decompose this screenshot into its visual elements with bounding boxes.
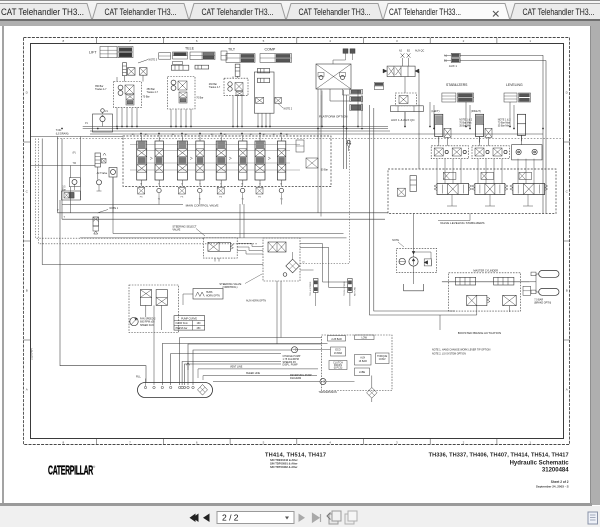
svg-text:B: B xyxy=(26,289,28,293)
svg-text:NOTE 2, LSI SYSTEM OPTION: NOTE 2, LSI SYSTEM OPTION xyxy=(432,352,466,355)
svg-text:31200484: 31200484 xyxy=(542,467,569,473)
svg-text:TH336, TH337, TH406, TH407, TH: TH336, TH337, TH406, TH407, TH414, TH514… xyxy=(429,453,569,459)
svg-text:TM: TM xyxy=(73,162,76,165)
svg-text:Trades 4-7: Trades 4-7 xyxy=(209,86,221,89)
svg-text:(RIGHT): (RIGHT) xyxy=(471,109,481,113)
svg-text:LEVELING: LEVELING xyxy=(506,83,523,87)
svg-text:T: T xyxy=(280,183,282,186)
svg-text:PS: PS xyxy=(258,197,261,199)
svg-text:P: P xyxy=(57,209,59,212)
svg-text:C: C xyxy=(26,190,29,194)
svg-text:P1: P1 xyxy=(85,122,89,125)
svg-text:FILL: FILL xyxy=(136,376,141,379)
svg-text:T1: T1 xyxy=(158,199,161,201)
svg-text:LOW: LOW xyxy=(361,337,367,340)
svg-text:MAIN CONTROL VALVE: MAIN CONTROL VALVE xyxy=(186,203,219,207)
svg-text:(LS DRAIN): (LS DRAIN) xyxy=(56,132,69,135)
svg-text:160: 160 xyxy=(197,323,202,325)
svg-text:CAT Telehandler TH3...: CAT Telehandler TH3... xyxy=(299,7,371,17)
svg-text:September 24, 2003 - S: September 24, 2003 - S xyxy=(536,484,569,488)
svg-text:TRANSMISSION: TRANSMISSION xyxy=(319,391,337,394)
svg-text:LIFT: LIFT xyxy=(89,51,97,55)
svg-text:70 Bar: 70 Bar xyxy=(196,97,203,100)
svg-text:VALVE: VALVE xyxy=(172,228,180,232)
svg-text:Trades 4-7: Trades 4-7 xyxy=(147,91,159,94)
svg-text:NOTE 1, HAND CHANGE WORK LEVER: NOTE 1, HAND CHANGE WORK LEVER TIP OPTIO… xyxy=(432,349,491,352)
svg-text:CAT Telehandler TH3...: CAT Telehandler TH3... xyxy=(105,7,177,17)
svg-text:B1: B1 xyxy=(273,134,276,136)
svg-text:FLOW l/min: FLOW l/min xyxy=(176,323,189,325)
svg-text:(BRAKE OPTN): (BRAKE OPTN) xyxy=(534,302,551,305)
svg-text:31200484: 31200484 xyxy=(30,348,34,360)
svg-text:(ORBITROL): (ORBITROL) xyxy=(223,285,238,289)
svg-text:7: 7 xyxy=(129,39,131,43)
svg-text:3: 3 xyxy=(396,441,398,445)
svg-text:16 BAR: 16 BAR xyxy=(359,360,368,363)
svg-text:S/N TDE00442 & After: S/N TDE00442 & After xyxy=(270,458,298,462)
svg-text:5: 5 xyxy=(263,39,265,43)
svg-text:T: T xyxy=(140,183,142,186)
svg-text:T1: T1 xyxy=(280,199,283,201)
svg-text:DIAGRAM: DIAGRAM xyxy=(290,377,301,380)
svg-text:6: 6 xyxy=(196,39,198,43)
svg-text:HORN OPTN: HORN OPTN xyxy=(206,295,220,297)
svg-text:1: 1 xyxy=(529,39,531,43)
svg-text:T: T xyxy=(259,183,261,186)
svg-text:DISPL. PUMP: DISPL. PUMP xyxy=(283,364,299,367)
svg-text:D: D xyxy=(566,91,569,95)
svg-text:AUX 1: AUX 1 xyxy=(449,64,458,68)
svg-text:A: A xyxy=(566,388,568,392)
svg-text:T1: T1 xyxy=(199,199,202,201)
svg-text:CAT Telehandler TH3...: CAT Telehandler TH3... xyxy=(1,7,84,17)
svg-text:35 Bar Min: 35 Bar Min xyxy=(498,125,510,128)
svg-text:250: 250 xyxy=(197,328,202,330)
svg-text:7: 7 xyxy=(129,441,131,445)
svg-text:A1: A1 xyxy=(444,55,448,58)
svg-text:S/N TDT00432 & After: S/N TDT00432 & After xyxy=(270,465,298,469)
svg-text:2: 2 xyxy=(463,39,465,43)
svg-text:LUBE: LUBE xyxy=(359,371,366,374)
svg-text:HUBS: HUBS xyxy=(206,292,213,294)
svg-text:TILT: TILT xyxy=(228,48,236,52)
svg-text:2: 2 xyxy=(463,441,465,445)
svg-text:8: 8 xyxy=(62,441,64,445)
svg-text:T: T xyxy=(220,183,222,186)
svg-text:AUX HORN OPTN: AUX HORN OPTN xyxy=(246,300,266,303)
svg-text:T: T xyxy=(158,183,160,186)
svg-text:TH414, TH514, TH417: TH414, TH514, TH417 xyxy=(265,453,326,459)
svg-text:ALT Valve: ALT Valve xyxy=(97,172,108,175)
svg-text:TO RH STEER: TO RH STEER xyxy=(344,281,346,296)
svg-text:AUX QC: AUX QC xyxy=(415,50,424,53)
svg-text:2-25 BAR: 2-25 BAR xyxy=(331,338,342,341)
svg-text:6: 6 xyxy=(196,441,198,445)
svg-text:CAT Telehandler TH33...: CAT Telehandler TH33... xyxy=(389,7,461,17)
svg-text:4: 4 xyxy=(329,39,331,43)
svg-text:70 Bar: 70 Bar xyxy=(143,96,150,99)
svg-text:A2: A2 xyxy=(399,50,403,53)
svg-text:PS: PS xyxy=(140,197,143,199)
svg-text:C: C xyxy=(566,190,569,194)
svg-text:Trades 4-7: Trades 4-7 xyxy=(95,88,107,91)
svg-text:PUMP CURVE: PUMP CURVE xyxy=(181,317,197,320)
svg-text:TELE: TELE xyxy=(185,46,195,50)
svg-text:T1: T1 xyxy=(241,199,244,201)
svg-text:MASTER CYLINDER: MASTER CYLINDER xyxy=(473,269,498,273)
svg-text:BLEED LINE: BLEED LINE xyxy=(246,372,260,375)
svg-text:50 Bar: 50 Bar xyxy=(321,169,328,172)
svg-text:(5 PCS): (5 PCS) xyxy=(334,366,343,369)
svg-text:COMP: COMP xyxy=(265,48,276,52)
svg-text:8: 8 xyxy=(62,39,64,43)
svg-text:CAT Telehandler TH3...: CAT Telehandler TH3... xyxy=(523,7,595,17)
svg-text:BOOSTED BRAKE ACTUATION: BOOSTED BRAKE ACTUATION xyxy=(458,331,501,335)
svg-text:4: 4 xyxy=(329,441,331,445)
svg-text:CAT Telehandler TH3...: CAT Telehandler TH3... xyxy=(202,7,274,17)
svg-text:Sheet 2 of 2: Sheet 2 of 2 xyxy=(551,480,569,484)
svg-text:VALVE LEVELING STABILIZERS: VALVE LEVELING STABILIZERS xyxy=(440,221,485,225)
svg-text:D: D xyxy=(26,91,29,95)
svg-text:PS: PS xyxy=(219,197,222,199)
svg-text:A1: A1 xyxy=(286,133,289,136)
svg-text:PLATFORM OPTION: PLATFORM OPTION xyxy=(319,115,347,119)
svg-text:PRESS bar: PRESS bar xyxy=(176,327,188,330)
svg-text:3: 3 xyxy=(396,39,398,43)
svg-text:B2: B2 xyxy=(407,50,411,53)
svg-text:NOTE: NOTE xyxy=(392,239,399,242)
svg-text:RETURN: RETURN xyxy=(355,286,357,296)
svg-text:B1: B1 xyxy=(444,60,448,63)
svg-text:T: T xyxy=(64,216,66,219)
svg-text:CATERPILLAR: CATERPILLAR xyxy=(48,463,94,478)
svg-text:T: T xyxy=(181,183,183,186)
svg-text:NOTE 1: NOTE 1 xyxy=(110,207,119,210)
svg-text:Hydraulic Schematic: Hydraulic Schematic xyxy=(510,460,570,466)
svg-text:A: A xyxy=(26,388,28,392)
svg-text:5: 5 xyxy=(263,441,265,445)
svg-text:T: T xyxy=(199,183,201,186)
svg-text:2 / 2: 2 / 2 xyxy=(222,512,239,522)
svg-text:1: 1 xyxy=(529,441,531,445)
svg-text:PS: PS xyxy=(181,197,184,199)
svg-text:AUX 1 & AUX QC: AUX 1 & AUX QC xyxy=(391,118,416,122)
svg-text:LS: LS xyxy=(302,262,305,264)
svg-text:A2: A2 xyxy=(263,133,266,136)
svg-text:B3: B3 xyxy=(211,134,214,136)
svg-text:LS: LS xyxy=(105,110,108,113)
svg-text:(P): (P) xyxy=(73,152,76,155)
svg-text:S/N TDF00501 & After: S/N TDF00501 & After xyxy=(270,462,298,466)
svg-text:(LEFT): (LEFT) xyxy=(431,109,439,113)
svg-text:SPEED FAN: SPEED FAN xyxy=(140,324,154,327)
svg-text:STABILIZERS: STABILIZERS xyxy=(446,83,468,87)
svg-text:VENT LINE: VENT LINE xyxy=(230,365,243,368)
svg-text:TO LH STEER: TO LH STEER xyxy=(310,281,312,296)
svg-text:16 BAR: 16 BAR xyxy=(334,352,343,355)
svg-text:®: ® xyxy=(93,465,96,469)
svg-text:NOTE 3: NOTE 3 xyxy=(149,59,158,62)
svg-text:NOTE 2: NOTE 2 xyxy=(284,108,293,111)
svg-text:CONV: CONV xyxy=(379,358,386,361)
svg-text:B: B xyxy=(566,289,568,293)
